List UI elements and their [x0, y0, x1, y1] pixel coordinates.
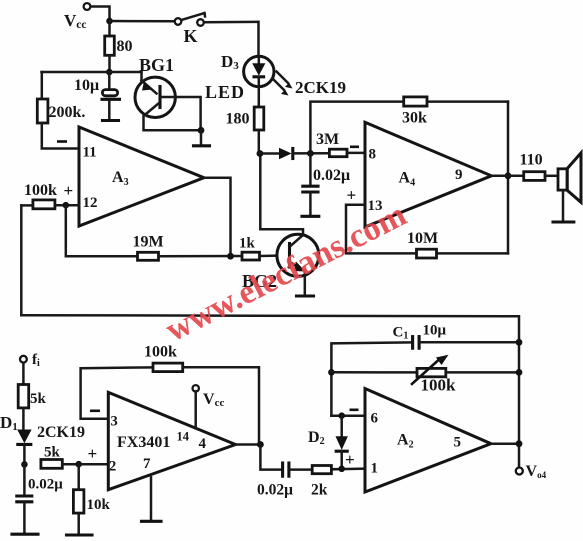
svg-text:14: 14: [177, 430, 190, 444]
svg-text:11: 11: [83, 145, 97, 161]
resistor 80: [105, 36, 115, 55]
capacitor 0.02u (A4 input, to ground): [309, 153, 312, 185]
svg-text:5k: 5k: [44, 445, 61, 461]
svg-text:12: 12: [83, 195, 98, 211]
svg-text:K: K: [184, 26, 198, 46]
svg-text:D1: D1: [0, 413, 18, 433]
svg-text:0.02μ: 0.02μ: [257, 482, 293, 499]
capacitor 0.02u (coupling): [281, 463, 284, 476]
wire: [204, 22, 259, 57]
op-amp A3: [79, 127, 204, 226]
LED arrows: [277, 72, 289, 84]
svg-text:C1: C1: [393, 325, 409, 342]
resistor 5k (horizontal): [41, 460, 62, 469]
svg-text:19M: 19M: [133, 234, 164, 251]
svg-text:3: 3: [111, 414, 118, 430]
svg-text:A4: A4: [399, 170, 416, 189]
svg-text:Vo4: Vo4: [526, 463, 547, 480]
svg-text:A3: A3: [112, 169, 129, 188]
resistor 30k: [404, 97, 427, 106]
power terminal Vcc (FX3401): [193, 385, 199, 391]
wire: [110, 20, 175, 23]
svg-text:0.02μ: 0.02μ: [313, 167, 350, 184]
svg-text:100k: 100k: [24, 182, 57, 199]
resistor 180: [254, 107, 264, 130]
wire pin6: [331, 414, 365, 417]
node: [257, 150, 264, 157]
LED D1 top: [244, 56, 274, 86]
diode D2: [340, 416, 343, 437]
wire A3 output: [204, 178, 231, 257]
resistor 10M: [417, 249, 437, 258]
svg-text:LED: LED: [205, 82, 245, 102]
svg-text:2CK19: 2CK19: [295, 78, 346, 97]
svg-text:180: 180: [226, 111, 250, 128]
svg-text:100k: 100k: [421, 376, 457, 395]
resistor 100k (FX feedback): [153, 363, 183, 372]
resistor 1k: [242, 252, 260, 260]
wire A2 out: [491, 442, 519, 445]
minus: [57, 140, 67, 143]
op-amp A4: [365, 122, 491, 227]
node: [307, 150, 314, 157]
node: [227, 253, 234, 260]
svg-text:1: 1: [371, 461, 379, 477]
wire pin13: [346, 205, 508, 254]
svg-text:A2: A2: [397, 432, 414, 451]
resistor 110: [524, 172, 545, 181]
svg-text:6: 6: [371, 411, 379, 427]
wire C1 top rail: [331, 342, 411, 415]
node: [257, 441, 264, 448]
svg-text:10k: 10k: [87, 497, 111, 513]
svg-text:2k: 2k: [311, 482, 328, 499]
svg-text:7: 7: [143, 456, 151, 472]
transistor BG1: [135, 77, 175, 117]
op-amp A2: [365, 389, 491, 493]
resistor 10k: [73, 490, 84, 513]
capacitor 10u (polarized, to ground): [108, 72, 111, 89]
wire: [91, 7, 110, 22]
input terminal fi: [20, 356, 27, 363]
power terminal Vcc (top-left): [84, 3, 91, 10]
ground: [103, 119, 119, 122]
svg-text:9: 9: [455, 167, 463, 183]
svg-text:30k: 30k: [402, 110, 427, 127]
node: [75, 461, 82, 468]
svg-text:80: 80: [117, 38, 133, 55]
node: below 80: [106, 69, 113, 76]
svg-text:100k: 100k: [144, 344, 177, 361]
node A4 output: [505, 172, 512, 179]
svg-text:Vcc: Vcc: [64, 11, 87, 31]
svg-text:5: 5: [454, 435, 462, 451]
potentiometer 100k: [331, 371, 417, 374]
capacitor C1 10u: [411, 337, 414, 349]
svg-text:D2: D2: [308, 429, 325, 447]
svg-text:4: 4: [199, 436, 207, 452]
wire pin3 feedback: [81, 367, 153, 418]
svg-text:2: 2: [109, 459, 116, 475]
svg-text:+: +: [64, 181, 74, 200]
switch K: [175, 18, 182, 25]
svg-text:1k: 1k: [239, 236, 256, 252]
svg-text:+: +: [345, 450, 355, 469]
svg-text:D3: D3: [221, 52, 239, 72]
resistor 5k (vertical): [18, 385, 29, 408]
ground FX3401: [150, 477, 153, 520]
svg-text:FX3401: FX3401: [117, 434, 170, 451]
diode D1 (2CK19): [17, 430, 31, 444]
output terminal Vo: [516, 468, 523, 475]
node pin12: [63, 202, 70, 209]
svg-text:5k: 5k: [30, 391, 47, 407]
svg-text:0.02μ: 0.02μ: [28, 477, 63, 493]
resistor 3M: [329, 149, 347, 157]
capacitor 0.02u (to ground): [23, 464, 26, 495]
node: Vcc junction: [106, 18, 113, 25]
resistor 2k: [312, 466, 331, 474]
op-amp FX3401: [108, 392, 235, 489]
wire: [42, 71, 142, 74]
wire: junction drop to 19M rail: [66, 205, 138, 256]
speaker: [558, 169, 567, 190]
svg-text:2CK19: 2CK19: [37, 424, 85, 441]
node + ground below BG1: [198, 127, 205, 134]
wire 30k top rail: [310, 102, 508, 154]
svg-text:3M: 3M: [316, 131, 339, 148]
svg-text:+: +: [347, 186, 357, 205]
ground BG2: [297, 294, 314, 297]
svg-text:fi: fi: [32, 352, 40, 369]
resistor 200k: [41, 72, 44, 99]
node: [21, 461, 28, 468]
resistor 19M: [138, 252, 159, 260]
svg-text:8: 8: [369, 147, 377, 163]
transistor BG2: [277, 234, 319, 276]
svg-text:10μ: 10μ: [423, 323, 447, 339]
svg-text:+: +: [88, 444, 98, 463]
ground speaker: [553, 220, 574, 223]
svg-text:Vcc: Vcc: [203, 391, 224, 409]
svg-text:BG1: BG1: [139, 55, 174, 75]
wire: left drop to bottom rail: [20, 205, 23, 315]
svg-text:www.elecfans.com: www.elecfans.com: [160, 196, 412, 349]
wire long bottom rail: [21, 315, 519, 467]
node: [328, 369, 335, 376]
wire right side loop: [507, 102, 510, 254]
svg-text:10μ: 10μ: [74, 77, 99, 94]
svg-text:10M: 10M: [407, 230, 438, 247]
diode (series, to 3M): [260, 152, 279, 155]
wire FX output: [236, 443, 261, 446]
svg-text:200k.: 200k.: [49, 104, 86, 121]
svg-text:110: 110: [520, 152, 543, 169]
